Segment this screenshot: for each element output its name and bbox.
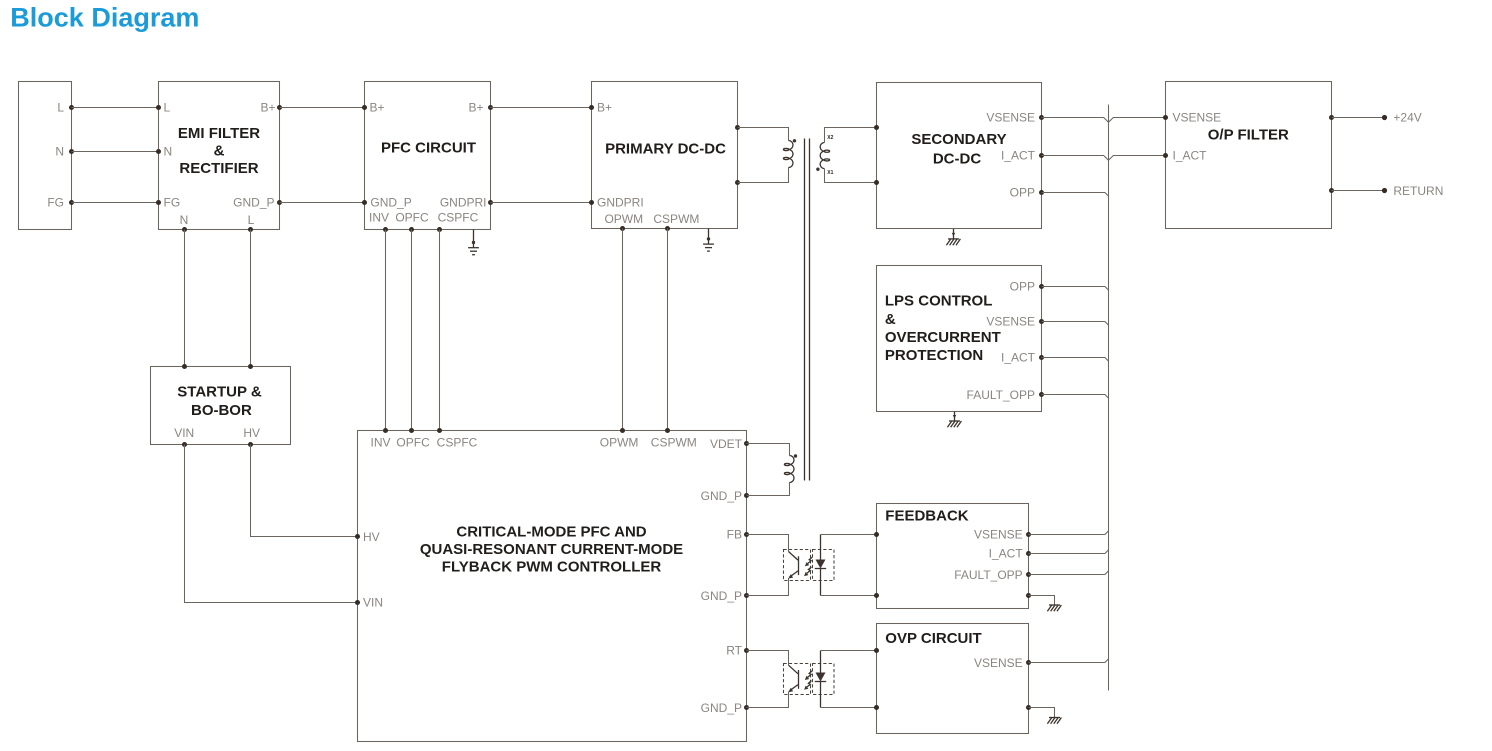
svg-text:DC-DC: DC-DC [933, 151, 981, 168]
optocoupler U3 phototransistor loop (RT side) [747, 651, 789, 708]
svg-text:FG: FG [47, 196, 64, 210]
wire to RETURN terminal [1332, 190, 1385, 192]
optocoupler U2 light arrows [804, 557, 812, 576]
pin OPFC (controller top) [396, 428, 430, 450]
svg-text:FLYBACK PWM CONTROLLER: FLYBACK PWM CONTROLLER [442, 559, 662, 576]
svg-text:PROTECTION: PROTECTION [885, 347, 983, 364]
pin OPWM (controller top) [600, 428, 639, 450]
wire signal bus vertical [1108, 105, 1110, 691]
wire FAULT_OPP FEEDBACK to bus [1029, 571, 1109, 575]
pin B+ (PFC right) [468, 101, 493, 115]
svg-text:VSENSE: VSENSE [974, 528, 1023, 542]
svg-text:HV: HV [243, 426, 260, 440]
block EMI FILTER & RECTIFIER [159, 82, 280, 230]
pin HV (STARTUP bottom) [243, 426, 260, 447]
wire I_ACT FEEDBACK to bus [1029, 550, 1109, 554]
pin T1 secondary top (SECONDARY left) [874, 125, 879, 130]
pin I_ACT (SECONDARY right) [1001, 149, 1044, 163]
svg-text:VIN: VIN [363, 596, 383, 610]
pin VSENSE (LPS right) [986, 315, 1044, 329]
svg-text:LPS CONTROL: LPS CONTROL [885, 293, 993, 310]
optocoupler U2 LED [815, 535, 826, 596]
ground (SECONDARY chassis symbol) [946, 229, 960, 245]
svg-text:&: & [214, 143, 225, 160]
wire GND_P to aux winding [747, 483, 790, 496]
svg-text:GNDPRI: GNDPRI [597, 196, 644, 210]
ground (PRIMARY earth symbol) [703, 229, 714, 252]
node RETURN terminal [1382, 184, 1444, 198]
pin RT (controller right) [726, 644, 749, 658]
pin opto bottom (FEEDBACK left) [874, 593, 879, 598]
svg-text:VIN: VIN [174, 426, 194, 440]
wire N input to EMI [72, 151, 159, 153]
pin VSENSE (SECONDARY right) [986, 111, 1044, 125]
pin I_ACT (FEEDBACK right) [989, 547, 1031, 561]
svg-text:GND_P: GND_P [370, 196, 411, 210]
svg-text:N: N [55, 145, 64, 159]
pin GND (OVP right) [1026, 705, 1031, 710]
svg-text:VDET: VDET [710, 437, 743, 451]
wire I_ACT LPS to bus [1042, 358, 1109, 362]
wire INV down to controller [385, 230, 387, 431]
optocoupler U2 phototransistor loop (FB side) [747, 535, 789, 596]
svg-text:GND_P: GND_P [701, 589, 742, 603]
pin VSENSE (OVP right) [974, 656, 1031, 670]
block O/P FILTER [1166, 82, 1332, 229]
block STARTUP & BO-BOR [151, 367, 291, 445]
pin T1 secondary bottom (SECONDARY left) [874, 180, 879, 185]
pin OPP (LPS right) [1010, 280, 1044, 294]
svg-text:FB: FB [727, 528, 742, 542]
svg-text:OVERCURRENT: OVERCURRENT [885, 329, 1001, 346]
svg-text:I_ACT: I_ACT [1001, 149, 1036, 163]
wire T1 primary loop [738, 128, 789, 183]
svg-text:L: L [164, 101, 171, 115]
optocoupler U2 dashed body [784, 550, 835, 581]
wire VDET to aux winding [747, 444, 790, 456]
block FEEDBACK [877, 504, 1029, 609]
svg-text:FG: FG [164, 196, 181, 210]
pin FB (controller right) [727, 528, 749, 542]
svg-text:CSPFC: CSPFC [438, 211, 479, 225]
pin CSPFC (PFC bottom) [437, 211, 479, 233]
wire OPP SECONDARY to bus [1042, 193, 1109, 197]
pin INV (controller top) [370, 428, 390, 450]
block PFC CIRCUIT [365, 82, 491, 230]
svg-text:FAULT_OPP: FAULT_OPP [954, 568, 1022, 582]
pin FAULT_OPP (LPS right) [967, 388, 1044, 402]
optocoupler U2 phototransistor [788, 552, 798, 579]
optocoupler U3 light arrows [804, 671, 812, 690]
wire OPFC down to controller [411, 230, 413, 431]
svg-text:I_ACT: I_ACT [989, 547, 1024, 561]
polarity dot T1 aux [794, 454, 797, 457]
svg-text:PFC CIRCUIT: PFC CIRCUIT [381, 140, 476, 157]
svg-text:EMI FILTER: EMI FILTER [178, 125, 260, 142]
svg-text:OPWM: OPWM [604, 212, 643, 226]
ground (PFC earth symbol) [468, 230, 479, 255]
wire L EMI down to STARTUP [250, 230, 252, 367]
pin RETURN (O/P FILTER right) [1329, 188, 1334, 193]
svg-text:CRITICAL-MODE PFC AND: CRITICAL-MODE PFC AND [456, 524, 646, 541]
svg-text:GNDPRI: GNDPRI [440, 196, 487, 210]
wire CSPWM down to controller [667, 229, 669, 431]
pin GNDPRI (PRIMARY left) [589, 196, 644, 210]
pin I_ACT (O/P FILTER left) [1163, 149, 1207, 163]
wire I_ACT SECONDARY to O/P FILTER (hop over bus) [1042, 156, 1166, 161]
svg-text:RETURN: RETURN [1393, 184, 1443, 198]
svg-text:OPWM: OPWM [600, 436, 639, 450]
pin +24V (O/P FILTER right) [1329, 115, 1334, 120]
AC input terminal block [19, 82, 72, 230]
block PRIMARY DC-DC [592, 82, 738, 229]
wire FG input to EMI [72, 202, 159, 204]
pin N (STARTUP top left) [182, 364, 187, 369]
pin GND_P fb (controller right) [701, 589, 749, 603]
optocoupler U3 dashed body [784, 664, 835, 695]
block OVP CIRCUIT [877, 624, 1029, 734]
pin VIN (controller left) [355, 596, 383, 610]
transformer T1 aux winding [784, 456, 794, 483]
pin B+ (PFC left) [362, 101, 385, 115]
pin CSPFC (controller top) [437, 428, 478, 450]
node L (input) [57, 101, 74, 115]
ground (LPS chassis symbol) [947, 412, 961, 428]
svg-text:N: N [180, 213, 189, 227]
pin L (EMI bottom) [248, 213, 255, 232]
wire OVP to ground [1029, 708, 1055, 718]
pin GND_P (PFC left) [362, 196, 412, 210]
svg-text:VSENSE: VSENSE [986, 111, 1035, 125]
svg-text:OPP: OPP [1010, 280, 1035, 294]
node FG (input) [47, 196, 74, 210]
svg-text:B+: B+ [597, 101, 612, 115]
wire VSENSE FEEDBACK to bus [1029, 531, 1109, 535]
wire VSENSE LPS to bus [1042, 322, 1109, 326]
svg-text:BO-BOR: BO-BOR [191, 402, 252, 419]
svg-text:INV: INV [369, 211, 389, 225]
pin OPWM (PRIMARY bottom) [604, 212, 643, 231]
svg-text:N: N [164, 145, 173, 159]
svg-text:GND_P: GND_P [233, 196, 274, 210]
block CRITICAL-MODE PFC AND QUASI-RESONANT CURRENT-MODE FLYBACK PWM CONTROLLER [358, 431, 747, 742]
svg-text:GND_P: GND_P [701, 701, 742, 715]
pin opto top (FEEDBACK left) [874, 532, 879, 537]
svg-text:L: L [248, 213, 255, 227]
wire LED to FEEDBACK [821, 535, 877, 596]
pin label X1 [827, 170, 833, 176]
pin GND_P aux (controller right) [701, 489, 749, 503]
pin GND_P (EMI right) [233, 196, 282, 210]
wire GNDPRI PFC to PRIMARY [491, 202, 592, 204]
wire FEEDBACK to ground [1029, 596, 1055, 606]
svg-text:B+: B+ [370, 101, 385, 115]
wire VSENSE SECONDARY to O/P FILTER (hop over bus) [1042, 118, 1166, 123]
pin GNDPRI (PFC right) [440, 196, 493, 210]
svg-text:FAULT_OPP: FAULT_OPP [967, 388, 1035, 402]
pin T1 primary bottom (PRIMARY right) [735, 180, 740, 185]
svg-text:INV: INV [370, 436, 390, 450]
svg-text:B+: B+ [260, 101, 275, 115]
svg-text:I_ACT: I_ACT [1001, 351, 1036, 365]
pin opto bottom (OVP left) [874, 705, 879, 710]
svg-text:OPFC: OPFC [395, 211, 429, 225]
pin GND (FEEDBACK right) [1026, 593, 1031, 598]
svg-text:I_ACT: I_ACT [1173, 149, 1208, 163]
optocoupler U3 phototransistor [788, 665, 798, 692]
pin VSENSE (O/P FILTER left) [1163, 111, 1221, 125]
pin I_ACT (LPS right) [1001, 351, 1044, 365]
pin N (EMI bottom) [180, 213, 189, 232]
svg-text:HV: HV [363, 530, 380, 544]
wire GND_P EMI to PFC [280, 202, 365, 204]
svg-text:STARTUP &: STARTUP & [177, 384, 262, 401]
pin OPFC (PFC bottom) [395, 211, 429, 233]
pin GND_P rt (controller right) [701, 701, 749, 715]
wire L input to EMI [72, 107, 159, 109]
wire LED to OVP [821, 651, 877, 708]
svg-text:B+: B+ [468, 101, 483, 115]
pin VSENSE (FEEDBACK right) [974, 528, 1031, 542]
wire VIN STARTUP to controller [185, 445, 358, 603]
wire B+ PFC to PRIMARY [491, 107, 592, 109]
svg-text:X2: X2 [827, 135, 833, 141]
wire to +24V terminal [1332, 117, 1385, 119]
svg-text:RT: RT [726, 644, 742, 658]
svg-text:OPFC: OPFC [396, 436, 430, 450]
svg-text:X1: X1 [827, 170, 833, 176]
svg-text:VSENSE: VSENSE [986, 315, 1035, 329]
pin T1 primary top (PRIMARY right) [735, 125, 740, 130]
pin N (EMI left) [156, 145, 172, 159]
optocoupler U3 LED [815, 651, 826, 708]
node N (input) [55, 145, 74, 159]
pin VDET (controller right) [710, 437, 749, 451]
svg-text:GND_P: GND_P [701, 489, 742, 503]
pin label X2 [827, 135, 833, 141]
pin L (STARTUP top right) [248, 364, 253, 369]
wire FAULT_OPP LPS to bus [1042, 395, 1109, 399]
pin B+ (EMI right) [260, 101, 282, 115]
svg-text:RECTIFIER: RECTIFIER [179, 160, 258, 177]
pin CSPWM (PRIMARY bottom) [653, 212, 699, 231]
pin OPP (SECONDARY right) [1010, 186, 1044, 200]
wire N EMI down to STARTUP [184, 230, 186, 367]
ground (FEEDBACK chassis symbol) [1047, 605, 1061, 611]
svg-text:L: L [57, 101, 64, 115]
pin FG (EMI left) [156, 196, 180, 210]
wire OPWM down to controller [622, 229, 624, 431]
wire B+ EMI to PFC [280, 107, 365, 109]
wire OPP LPS to bus [1042, 287, 1109, 291]
pin L (EMI left) [156, 101, 171, 115]
pin INV (PFC bottom) [369, 211, 389, 233]
polarity dot T1 primary [793, 139, 796, 142]
wire T1 secondary loop [825, 128, 877, 183]
pin VIN (STARTUP bottom) [174, 426, 194, 447]
svg-text:+24V: +24V [1393, 111, 1421, 125]
transformer T1 primary winding [783, 141, 793, 168]
pin B+ (PRIMARY left) [589, 101, 612, 115]
svg-text:CSPWM: CSPWM [651, 436, 697, 450]
svg-text:&: & [885, 311, 896, 328]
svg-text:OVP CIRCUIT: OVP CIRCUIT [885, 630, 981, 647]
block SECONDARY DC-DC [877, 83, 1042, 229]
svg-text:O/P FILTER: O/P FILTER [1208, 127, 1289, 144]
wire HV STARTUP to controller [251, 445, 358, 537]
svg-text:CSPWM: CSPWM [653, 212, 699, 226]
svg-text:SECONDARY: SECONDARY [911, 131, 1006, 148]
transformer T1 core [805, 139, 810, 481]
svg-text:VSENSE: VSENSE [974, 656, 1023, 670]
node +24V terminal [1382, 111, 1422, 125]
wire VSENSE OVP to bus [1029, 659, 1109, 663]
svg-text:CSPFC: CSPFC [437, 436, 478, 450]
pin HV (controller left) [355, 530, 380, 544]
polarity dot T1 secondary [816, 168, 819, 171]
page title [10, 2, 199, 32]
svg-text:PRIMARY DC-DC: PRIMARY DC-DC [605, 141, 726, 158]
svg-text:FEEDBACK: FEEDBACK [885, 508, 969, 525]
svg-text:VSENSE: VSENSE [1173, 111, 1222, 125]
pin opto top (OVP left) [874, 648, 879, 653]
svg-text:Block Diagram: Block Diagram [10, 2, 199, 32]
pin CSPWM (controller top) [651, 428, 697, 450]
svg-text:OPP: OPP [1010, 186, 1035, 200]
ground (OVP chassis symbol) [1047, 718, 1061, 724]
wire CSPFC down to controller [439, 230, 441, 431]
svg-text:QUASI-RESONANT CURRENT-MODE: QUASI-RESONANT CURRENT-MODE [420, 541, 683, 558]
transformer T1 secondary winding [820, 142, 829, 168]
block LPS CONTROL & OVERCURRENT PROTECTION [877, 266, 1042, 412]
pin FAULT_OPP (FEEDBACK right) [954, 568, 1031, 582]
